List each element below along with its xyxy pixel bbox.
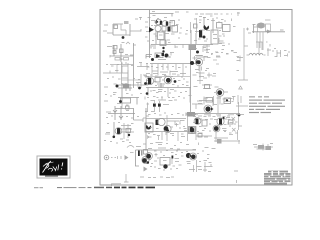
output stage bottom-left cluster bbox=[145, 143, 196, 169]
preamp stage Q1 Q2 bbox=[148, 16, 183, 33]
right margin symbols bbox=[236, 56, 248, 145]
title block bbox=[264, 171, 291, 185]
bottom dashes row bbox=[140, 176, 174, 179]
mid bus line bbox=[146, 63, 196, 65]
volume pot knot bbox=[104, 90, 139, 108]
main rail bus row3 right bbox=[190, 114, 240, 123]
left column texture fill bbox=[104, 63, 142, 143]
mid band connective fill bbox=[110, 25, 219, 85]
left frame stubs bbox=[145, 22, 149, 37]
power transformer T1 bbox=[244, 20, 285, 55]
grid reference ticks top bbox=[135, 12, 240, 21]
driver stage Q5 Q6 bbox=[144, 76, 191, 102]
AC line coil and fuse row bbox=[247, 44, 291, 57]
power band texture fill bbox=[148, 113, 236, 136]
effects loop arc bbox=[127, 144, 146, 148]
reverb return Q7 bbox=[105, 122, 134, 140]
speaker output network bbox=[253, 144, 273, 151]
aux input jack bbox=[104, 155, 128, 160]
output cluster texture fill bbox=[147, 151, 212, 171]
mid bus drop wires bbox=[147, 64, 183, 71]
channel bus vertical bbox=[133, 43, 135, 88]
driver RC rows bbox=[193, 72, 219, 89]
input jack J2 network bbox=[107, 42, 136, 67]
power amp bus row3 bbox=[146, 108, 196, 150]
HV rail vertical bbox=[238, 28, 248, 89]
output transistor Q9 bbox=[190, 118, 212, 140]
preamp texture fill bbox=[147, 18, 188, 43]
driver stage Q11 bbox=[190, 56, 211, 73]
preamp top bus bbox=[150, 10, 174, 59]
gray mass block bbox=[189, 45, 196, 50]
preamp lower cluster bbox=[146, 53, 174, 59]
mid right rail bbox=[190, 45, 192, 115]
limiter opamp cluster bbox=[192, 96, 236, 113]
footswitch connector bbox=[130, 150, 149, 172]
mid texture row bbox=[146, 70, 186, 76]
output transistor Q10 bbox=[213, 115, 241, 132]
mid top dark pair bbox=[151, 53, 197, 61]
Q4 dark cluster bbox=[191, 30, 225, 44]
VAS transistor bbox=[184, 115, 196, 141]
right column dots bbox=[237, 57, 240, 71]
connector F block bbox=[146, 112, 196, 119]
EQ knot cluster bbox=[104, 83, 148, 92]
left channel bus bbox=[103, 66, 128, 74]
notes list bbox=[249, 96, 285, 113]
channel ladder bbox=[115, 58, 149, 85]
mid bias cluster bbox=[189, 44, 238, 57]
reverb send block bbox=[106, 106, 149, 122]
input jack J1 network bbox=[103, 21, 141, 39]
preamp RC grid bbox=[151, 31, 213, 53]
top mid cluster around Q3 bbox=[191, 17, 236, 33]
tone stack verticals bbox=[128, 63, 149, 89]
top mid texture fill bbox=[192, 16, 234, 57]
ground stub bottom left bbox=[124, 174, 129, 182]
bias network cluster bbox=[197, 96, 234, 105]
copyright footer line bbox=[34, 184, 155, 189]
power amp input pair bbox=[145, 115, 185, 141]
driver transistor Q12 bbox=[214, 89, 228, 105]
predriver cluster bbox=[147, 132, 185, 141]
decoupling caps row bbox=[145, 97, 180, 112]
sheet border frame bbox=[100, 10, 292, 186]
emitter network bottom bbox=[214, 130, 240, 144]
Peavey logo plate bbox=[37, 156, 70, 178]
output stage bottom-right transistors bbox=[186, 143, 238, 184]
mid band texture fill bbox=[146, 67, 189, 99]
